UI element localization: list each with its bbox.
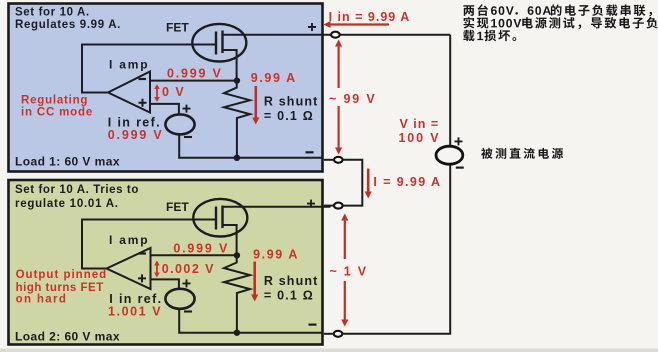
voltage source V in (DC source under test)	[436, 146, 463, 164]
svg-text:Load 1: 60 V max: Load 1: 60 V max	[15, 155, 120, 169]
svg-text:9.99 A: 9.99 A	[251, 71, 297, 85]
wire: op-amp1 non-inverting input to ref source	[150, 104, 179, 114]
terminal: load1 -	[334, 157, 343, 163]
svg-text:0.999 V: 0.999 V	[173, 242, 229, 256]
transistor FET load 2 : body circle	[193, 199, 247, 237]
wire: load2 + in	[324, 205, 334, 207]
svg-text:1.001 V: 1.001 V	[108, 305, 162, 319]
svg-text:~ 1 V: ~ 1 V	[330, 265, 368, 279]
transistor FET load 1 : body circle	[192, 24, 246, 62]
wire: series link load1- to load2+	[343, 160, 363, 206]
~99V measure arrow lower segment	[338, 106, 340, 150]
wire: op-amp1 inverting input to shunt top node	[150, 80, 237, 82]
svg-text:Regulates 9.99 A.: Regulates 9.99 A.	[15, 19, 121, 31]
svg-text:Output pinned: Output pinned	[16, 269, 108, 281]
svg-text:= 0.1 Ω: = 0.1 Ω	[264, 288, 314, 302]
resistor R shunt (load 1)	[224, 81, 250, 158]
ref source (load1) minus sign	[184, 136, 192, 138]
wire: ref source bottom to ground rail (load2)	[179, 309, 322, 332]
svg-text:V in =: V in =	[400, 117, 440, 131]
node: shunt top (load1)	[234, 77, 240, 83]
~1V measure arrow upper segment	[344, 218, 346, 259]
wire: load1 + to source (top rail)	[339, 34, 450, 36]
source plus sign	[455, 137, 463, 145]
node: shunt bottom (load1)	[234, 155, 240, 161]
minus sign at load2 - terminal	[309, 324, 317, 326]
wire: right vertical down to source +	[449, 35, 451, 147]
svg-text:9.99 A: 9.99 A	[253, 248, 299, 262]
wire: bottom rail to source -	[342, 164, 450, 334]
svg-text:0.999 V: 0.999 V	[167, 67, 223, 81]
op-amp U2 (I amp, load 2)	[107, 248, 151, 289]
svg-text:0.999 V: 0.999 V	[108, 128, 164, 142]
op-amp U1 (I amp, load 1)	[108, 72, 150, 113]
FET load1 channel bar	[221, 31, 223, 54]
FET load2 drain wire to + terminal	[223, 206, 331, 208]
ref source I in ref (load1) plus sign	[183, 105, 191, 113]
op-amp1 plus sign	[139, 99, 147, 107]
svg-text:FET: FET	[166, 200, 189, 214]
note text (Chinese) top right	[463, 4, 652, 16]
svg-text:= 0.1 Ω: = 0.1 Ω	[264, 109, 314, 123]
ref source (load2) plus sign	[183, 279, 191, 287]
load 1 box	[9, 4, 323, 172]
load 2 box	[9, 180, 323, 345]
op-amp2 plus sign	[138, 274, 146, 282]
source minus sign	[456, 167, 464, 169]
svg-text:Set for 10 A. Tries to: Set for 10 A. Tries to	[15, 184, 139, 196]
wire: load1 - out	[324, 159, 334, 161]
svg-text:0 V: 0 V	[162, 85, 185, 99]
wire: gate feedback (load 2)	[82, 220, 216, 269]
arrow under I in label	[328, 23, 389, 25]
op-amp1 minus sign	[139, 78, 147, 80]
bottom edge shadow	[0, 349, 658, 352]
svg-text:FET: FET	[166, 21, 189, 35]
svg-text:I amp: I amp	[109, 233, 149, 247]
current arrow 9.99A (load1)	[255, 86, 258, 120]
svg-text:Load 2: 60 V max: Load 2: 60 V max	[15, 330, 120, 344]
current arrow 9.99A (load2)	[253, 262, 256, 297]
current source ref (load 1)	[165, 114, 194, 134]
node: shunt top (load2)	[234, 252, 240, 258]
FET load2 gate bar	[215, 207, 217, 230]
~99V measure arrow upper segment	[338, 44, 340, 88]
ref source (load2) minus sign	[184, 310, 192, 312]
wire: gate feedback (load 1)	[82, 45, 216, 93]
node: shunt bottom (load2)	[234, 330, 240, 336]
plus sign at load1 + terminal	[308, 23, 316, 31]
plus sign at load2 + terminal	[307, 200, 315, 208]
wire: load2 - out	[324, 333, 334, 335]
wire: op-amp2 inverting input to shunt top node	[151, 254, 237, 256]
series current arrow	[367, 169, 370, 194]
0.002 V arrow (load2)	[156, 265, 158, 275]
op-amp2 minus sign	[139, 252, 147, 254]
svg-text:R shunt: R shunt	[264, 274, 319, 288]
svg-text:I in = 9.99 A: I in = 9.99 A	[329, 10, 411, 24]
FET load1 drain wire to + terminal	[223, 34, 331, 36]
terminal: load2 -	[334, 331, 343, 337]
svg-text:high turns FET: high turns FET	[16, 282, 104, 294]
svg-text:R shunt: R shunt	[264, 94, 319, 108]
FET load2 source wire down to shunt node	[223, 225, 237, 255]
svg-text:Set for 10 A.: Set for 10 A.	[15, 7, 90, 19]
terminal: load1 +	[331, 32, 340, 38]
svg-text:100 V: 100 V	[399, 131, 441, 145]
svg-text:~ 99 V: ~ 99 V	[329, 92, 377, 106]
minus sign at load1 - terminal	[306, 151, 314, 153]
svg-text:in CC mode: in CC mode	[21, 106, 93, 118]
~1V measure arrow lower segment	[344, 281, 346, 322]
label DC source under test (Chinese)	[481, 148, 563, 159]
wire: ref source bottom to ground rail (load1)	[179, 135, 322, 158]
wire: op-amp2 non-inverting input to ref source	[151, 279, 179, 288]
svg-text:I amp: I amp	[109, 58, 149, 72]
FET load2 channel bar	[221, 206, 223, 229]
svg-text:on hard: on hard	[16, 293, 68, 305]
svg-text:Regulating: Regulating	[21, 94, 88, 106]
FET load1 gate bar	[215, 32, 217, 55]
terminal: load2 +	[334, 203, 343, 209]
resistor R shunt (load 2)	[224, 255, 250, 332]
svg-text:0.002 V: 0.002 V	[162, 262, 215, 276]
svg-text:I = 9.99 A: I = 9.99 A	[373, 175, 441, 189]
FET load1 source wire down to shunt node	[223, 50, 237, 81]
0 V arrow (load1)	[156, 88, 158, 98]
svg-text:regulate 10.01 A.: regulate 10.01 A.	[15, 198, 119, 210]
current source ref (load 2)	[165, 289, 194, 309]
